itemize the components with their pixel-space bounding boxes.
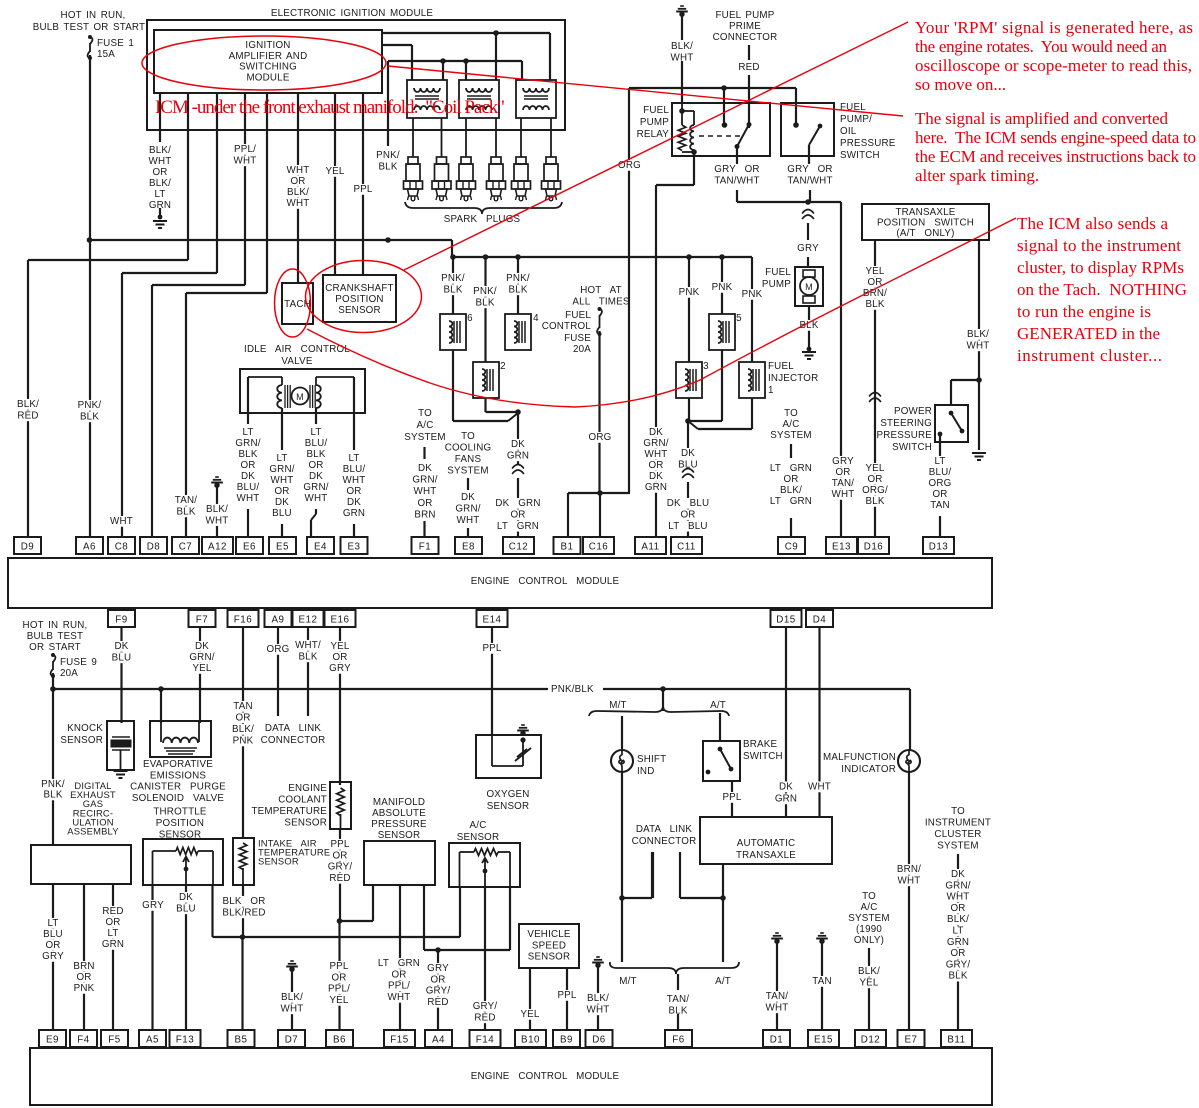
svg-text:TAN: TAN	[233, 701, 252, 712]
svg-text:SENSOR: SENSOR	[258, 856, 299, 867]
svg-text:PNK/: PNK/	[506, 273, 530, 284]
svg-text:The signal is amplified and co: The signal is amplified and converted	[915, 109, 1169, 128]
svg-text:PNK/: PNK/	[41, 779, 65, 790]
svg-text:LT: LT	[154, 189, 165, 200]
svg-text:CONNECTOR: CONNECTOR	[632, 836, 697, 847]
svg-text:PPL: PPL	[482, 643, 501, 654]
svg-text:WHT: WHT	[206, 515, 229, 526]
svg-text:BRAKE: BRAKE	[743, 739, 777, 750]
svg-text:BLK/: BLK/	[587, 993, 609, 1004]
svg-text:PNK: PNK	[742, 289, 763, 300]
svg-text:CONTROL: CONTROL	[542, 321, 592, 332]
svg-text:BLK/: BLK/	[281, 992, 303, 1003]
svg-text:GRN: GRN	[645, 482, 667, 493]
svg-text:D4: D4	[813, 615, 827, 626]
svg-text:BLK: BLK	[298, 651, 317, 662]
svg-text:RED: RED	[738, 62, 759, 73]
svg-text:PNK: PNK	[74, 983, 95, 994]
svg-text:A/C: A/C	[861, 902, 878, 913]
svg-text:MALFUNCTION: MALFUNCTION	[823, 752, 896, 763]
svg-text:A11: A11	[641, 542, 659, 553]
svg-text:3: 3	[703, 361, 709, 372]
svg-text:SYSTEM: SYSTEM	[937, 841, 978, 852]
svg-text:GRY/: GRY/	[328, 862, 353, 873]
svg-text:E5: E5	[276, 542, 289, 553]
svg-text:BULB TEST: BULB TEST	[27, 631, 83, 642]
svg-text:DK BLU: DK BLU	[667, 498, 710, 509]
svg-text:COOLANT: COOLANT	[278, 795, 327, 806]
svg-text:OR: OR	[680, 509, 695, 520]
svg-text:E14: E14	[483, 615, 502, 626]
svg-text:OIL: OIL	[840, 126, 857, 137]
svg-text:D6: D6	[592, 1035, 606, 1046]
svg-text:OR: OR	[240, 460, 255, 471]
svg-text:D12: D12	[861, 1035, 880, 1046]
svg-text:B1: B1	[561, 542, 574, 553]
svg-text:YEL: YEL	[329, 995, 348, 1006]
svg-text:GRY: GRY	[329, 663, 351, 674]
svg-text:ASSEMBLY: ASSEMBLY	[67, 826, 119, 837]
svg-text:BLK: BLK	[865, 299, 884, 310]
svg-text:PRESSURE: PRESSURE	[371, 819, 427, 830]
svg-text:here. The ICM sends engine-sp: here. The ICM sends engine-speed data to	[915, 128, 1196, 147]
svg-text:A12: A12	[208, 542, 227, 553]
svg-text:TAN/WHT: TAN/WHT	[787, 175, 832, 186]
svg-text:OR: OR	[105, 917, 120, 928]
svg-text:PPL: PPL	[722, 792, 741, 803]
svg-text:SWITCH: SWITCH	[892, 442, 932, 453]
svg-text:E9: E9	[46, 1035, 59, 1046]
svg-text:BLK: BLK	[948, 971, 967, 982]
svg-text:C7: C7	[179, 542, 193, 553]
svg-text:A4: A4	[432, 1035, 445, 1046]
svg-text:PNK: PNK	[712, 282, 733, 293]
svg-text:BLK OR: BLK OR	[222, 896, 265, 907]
svg-text:BLK/: BLK/	[780, 485, 802, 496]
svg-text:PUMP/: PUMP/	[840, 114, 872, 125]
svg-text:M: M	[296, 392, 304, 402]
svg-text:BLK: BLK	[176, 506, 195, 517]
svg-text:TO: TO	[862, 891, 876, 902]
svg-text:GRN/: GRN/	[303, 482, 328, 493]
svg-text:SYSTEM: SYSTEM	[770, 430, 811, 441]
svg-text:C11: C11	[677, 542, 696, 553]
svg-text:TAN/WHT: TAN/WHT	[714, 175, 759, 186]
svg-text:LT: LT	[310, 427, 321, 438]
svg-text:F4: F4	[77, 1035, 89, 1046]
svg-text:HOT IN RUN,: HOT IN RUN,	[61, 10, 126, 21]
svg-text:FUSE 9: FUSE 9	[60, 657, 97, 668]
svg-text:TO: TO	[784, 408, 798, 419]
svg-text:PNK/: PNK/	[441, 273, 465, 284]
svg-text:D15: D15	[776, 615, 796, 626]
svg-text:TAN/: TAN/	[832, 478, 854, 489]
svg-text:ELECTRONIC IGNITION MODULE: ELECTRONIC IGNITION MODULE	[271, 8, 434, 19]
svg-text:E7: E7	[905, 1035, 918, 1046]
svg-text:FUEL: FUEL	[643, 105, 669, 116]
svg-text:WHT: WHT	[766, 1002, 789, 1013]
svg-text:F14: F14	[476, 1035, 494, 1046]
svg-text:BLK: BLK	[443, 284, 462, 295]
svg-text:instrument cluster...: instrument cluster...	[1017, 346, 1162, 365]
svg-text:D16: D16	[864, 542, 884, 553]
svg-text:GRN: GRN	[343, 508, 365, 519]
svg-text:OR: OR	[391, 969, 406, 980]
svg-text:WHT: WHT	[281, 1003, 304, 1014]
svg-text:Your 'RPM' signal is generated: Your 'RPM' signal is generated here, as	[915, 18, 1193, 37]
svg-text:SYSTEM: SYSTEM	[848, 913, 889, 924]
svg-text:ICM -under the front exhaust m: ICM -under the front exhaust manifold: "…	[155, 97, 505, 118]
svg-text:IGNITION: IGNITION	[245, 40, 290, 51]
svg-text:WHT: WHT	[287, 198, 310, 209]
svg-text:PUMP: PUMP	[640, 117, 669, 128]
svg-text:YEL: YEL	[859, 977, 878, 988]
svg-text:ALL TIMES: ALL TIMES	[572, 296, 630, 307]
svg-text:AMPLIFIER AND: AMPLIFIER AND	[229, 51, 308, 62]
svg-text:INSTRUMENT: INSTRUMENT	[925, 818, 991, 829]
svg-text:POSITION SWITCH: POSITION SWITCH	[877, 217, 974, 228]
svg-text:OR: OR	[152, 167, 167, 178]
svg-text:BLK/: BLK/	[206, 504, 228, 515]
svg-text:BLK: BLK	[238, 449, 257, 460]
svg-text:A6: A6	[83, 542, 96, 553]
svg-text:BLU: BLU	[112, 652, 132, 663]
svg-text:TAN/: TAN/	[667, 994, 689, 1005]
svg-text:TEMPERATURE: TEMPERATURE	[252, 806, 328, 817]
svg-text:DK: DK	[114, 641, 128, 652]
svg-text:STEERING: STEERING	[880, 418, 932, 429]
svg-text:DK: DK	[309, 471, 323, 482]
svg-text:OR: OR	[332, 652, 347, 663]
svg-text:BLK/: BLK/	[287, 187, 309, 198]
svg-text:ORG: ORG	[618, 160, 641, 171]
svg-text:C8: C8	[115, 542, 129, 553]
svg-text:20A: 20A	[573, 344, 591, 355]
svg-text:M: M	[805, 282, 813, 292]
svg-text:AUTOMATIC: AUTOMATIC	[737, 838, 796, 849]
svg-text:GRY: GRY	[832, 456, 854, 467]
svg-text:4: 4	[533, 313, 539, 324]
svg-text:TO: TO	[461, 431, 475, 442]
svg-text:LT: LT	[276, 453, 287, 464]
svg-text:WHT/: WHT/	[295, 640, 321, 651]
svg-text:PNK/: PNK/	[376, 150, 400, 161]
svg-text:PPL/: PPL/	[234, 144, 256, 155]
svg-text:SWITCH: SWITCH	[840, 150, 880, 161]
svg-text:GRY: GRY	[42, 951, 64, 962]
svg-text:PPL/: PPL/	[328, 984, 350, 995]
svg-text:A/T: A/T	[715, 976, 731, 987]
svg-text:ENGINE CONTROL MODULE: ENGINE CONTROL MODULE	[471, 1071, 620, 1082]
svg-text:KNOCK: KNOCK	[67, 723, 103, 734]
svg-text:WHT: WHT	[237, 493, 260, 504]
svg-text:BLU/: BLU/	[237, 482, 260, 493]
svg-text:BLU/: BLU/	[929, 467, 952, 478]
svg-text:BLK: BLK	[378, 161, 397, 172]
svg-text:FUEL: FUEL	[768, 361, 794, 372]
svg-text:A9: A9	[272, 615, 285, 626]
svg-text:DK: DK	[511, 439, 525, 450]
svg-text:LT: LT	[107, 928, 118, 939]
svg-text:The ICM also sends a: The ICM also sends a	[1017, 214, 1168, 233]
svg-text:OR: OR	[308, 460, 323, 471]
svg-text:LT: LT	[952, 926, 963, 937]
svg-text:WHT: WHT	[645, 449, 668, 460]
svg-text:6: 6	[467, 313, 473, 324]
svg-text:PPL/: PPL/	[388, 981, 410, 992]
svg-text:WHT: WHT	[287, 165, 310, 176]
svg-text:SENSOR: SENSOR	[487, 801, 530, 812]
svg-text:WHT: WHT	[457, 515, 480, 526]
svg-text:TRANSAXLE: TRANSAXLE	[895, 207, 955, 218]
svg-text:GRY: GRY	[142, 900, 164, 911]
svg-text:TAN: TAN	[812, 976, 831, 987]
svg-text:A5: A5	[146, 1035, 159, 1046]
svg-text:BLK/: BLK/	[671, 41, 693, 52]
svg-text:A/C: A/C	[417, 420, 434, 431]
svg-text:ORG: ORG	[589, 432, 612, 443]
svg-text:PRIME: PRIME	[729, 21, 761, 32]
svg-text:A/T: A/T	[710, 700, 726, 711]
svg-text:WHT: WHT	[388, 992, 411, 1003]
svg-text:BLU: BLU	[176, 903, 196, 914]
svg-text:GRN/: GRN/	[269, 464, 294, 475]
svg-text:GRN: GRN	[947, 937, 969, 948]
svg-text:FANS: FANS	[455, 454, 482, 465]
svg-text:OR: OR	[648, 460, 663, 471]
svg-text:D8: D8	[147, 542, 161, 553]
svg-text:SENSOR: SENSOR	[284, 818, 327, 829]
svg-text:D7: D7	[285, 1035, 299, 1046]
svg-text:GRN: GRN	[102, 939, 124, 950]
svg-text:SENSOR: SENSOR	[528, 952, 571, 963]
svg-text:DATA LINK: DATA LINK	[265, 723, 322, 734]
svg-text:WHT: WHT	[587, 1004, 610, 1015]
svg-text:OR: OR	[783, 474, 798, 485]
svg-text:GRN/: GRN/	[235, 438, 260, 449]
svg-text:BLK/: BLK/	[149, 145, 171, 156]
svg-text:GRY: GRY	[427, 963, 449, 974]
svg-text:ENGINE CONTROL MODULE: ENGINE CONTROL MODULE	[471, 576, 620, 587]
svg-text:SOLENOID VALVE: SOLENOID VALVE	[132, 793, 224, 804]
svg-text:VALVE: VALVE	[281, 356, 312, 367]
svg-text:POSITION: POSITION	[156, 818, 204, 829]
svg-text:BLK/: BLK/	[17, 399, 39, 410]
svg-text:1: 1	[768, 385, 774, 396]
svg-text:BLK/: BLK/	[232, 724, 254, 735]
svg-text:ORG: ORG	[929, 478, 952, 489]
svg-text:F9: F9	[115, 615, 127, 626]
svg-text:OR: OR	[332, 850, 347, 861]
svg-text:MODULE: MODULE	[246, 72, 289, 83]
svg-text:CLUSTER: CLUSTER	[934, 829, 981, 840]
svg-text:MANIFOLD: MANIFOLD	[373, 797, 425, 808]
svg-text:D9: D9	[21, 542, 35, 553]
svg-text:POSITION: POSITION	[335, 294, 383, 305]
svg-text:PNK/: PNK/	[78, 400, 102, 411]
svg-text:PNK: PNK	[679, 287, 700, 298]
svg-text:FUEL: FUEL	[565, 310, 591, 321]
svg-text:OR: OR	[430, 974, 445, 985]
svg-text:PPL: PPL	[557, 990, 576, 1001]
svg-text:SENSOR: SENSOR	[378, 830, 421, 841]
svg-text:F5: F5	[108, 1035, 120, 1046]
svg-text:BLU/: BLU/	[305, 438, 328, 449]
svg-text:LT BLU: LT BLU	[668, 521, 707, 532]
svg-text:the engine rotates. You would: the engine rotates. You would need an	[915, 37, 1168, 56]
svg-text:PUMP: PUMP	[762, 279, 791, 290]
svg-text:PRESSURE: PRESSURE	[840, 138, 896, 149]
svg-text:DK: DK	[681, 448, 695, 459]
svg-text:OR: OR	[950, 903, 965, 914]
svg-text:C12: C12	[509, 542, 528, 553]
svg-text:to run the engine is: to run the engine is	[1017, 302, 1151, 321]
svg-text:RED: RED	[102, 906, 123, 917]
svg-text:BLU: BLU	[272, 508, 292, 519]
svg-text:the ECM and receives instructi: the ECM and receives instructions back t…	[915, 147, 1196, 166]
svg-text:INDICATOR: INDICATOR	[841, 764, 896, 775]
svg-text:GRY: GRY	[797, 243, 819, 254]
svg-text:DK: DK	[779, 782, 793, 793]
svg-text:so move on...: so move on...	[915, 75, 1006, 94]
svg-text:GRN/: GRN/	[455, 504, 480, 515]
svg-text:GRY/: GRY/	[473, 1001, 498, 1012]
svg-text:D13: D13	[929, 542, 949, 553]
svg-text:PPL: PPL	[353, 184, 372, 195]
svg-text:BRN: BRN	[414, 509, 435, 520]
svg-text:BLK: BLK	[80, 411, 99, 422]
svg-text:TAN: TAN	[930, 500, 949, 511]
svg-text:E15: E15	[814, 1035, 833, 1046]
svg-text:ONLY): ONLY)	[854, 935, 884, 946]
svg-text:GRN/: GRN/	[643, 438, 668, 449]
svg-text:WHT: WHT	[898, 875, 921, 886]
svg-text:BLK/: BLK/	[947, 914, 969, 925]
svg-text:VEHICLE: VEHICLE	[527, 929, 571, 940]
svg-text:HOT IN RUN,: HOT IN RUN,	[23, 620, 88, 631]
svg-text:ABSOLUTE: ABSOLUTE	[372, 808, 426, 819]
svg-text:YEL: YEL	[325, 166, 344, 177]
svg-text:OR: OR	[290, 176, 305, 187]
svg-text:alter spark timing.: alter spark timing.	[915, 166, 1039, 185]
svg-text:C9: C9	[785, 542, 799, 553]
svg-text:signal to the instrument: signal to the instrument	[1017, 236, 1181, 255]
svg-text:GRN/: GRN/	[945, 880, 970, 891]
svg-text:OR: OR	[45, 940, 60, 951]
svg-text:(1990: (1990	[856, 924, 882, 935]
svg-text:B5: B5	[235, 1035, 248, 1046]
svg-text:F13: F13	[176, 1035, 194, 1046]
svg-text:LT GRN: LT GRN	[770, 463, 812, 474]
svg-text:GRY OR: GRY OR	[714, 164, 759, 175]
svg-text:DK: DK	[241, 471, 255, 482]
svg-text:RED: RED	[17, 410, 38, 421]
svg-text:POWER: POWER	[894, 406, 932, 417]
svg-text:EVAPORATIVE: EVAPORATIVE	[143, 759, 213, 770]
svg-text:BLU/: BLU/	[343, 464, 366, 475]
svg-text:RED: RED	[474, 1012, 495, 1023]
svg-text:OR: OR	[346, 486, 361, 497]
svg-text:A/C: A/C	[783, 419, 800, 430]
svg-text:GRY/: GRY/	[426, 986, 451, 997]
svg-text:E16: E16	[331, 615, 350, 626]
svg-text:oscilloscope or scope-meter to: oscilloscope or scope-meter to read this…	[915, 56, 1192, 75]
svg-text:FUEL: FUEL	[765, 267, 791, 278]
svg-text:cluster, to display RPMs: cluster, to display RPMs	[1017, 258, 1184, 277]
svg-text:LT: LT	[934, 456, 945, 467]
svg-text:WHT: WHT	[967, 340, 990, 351]
svg-text:OR: OR	[417, 498, 432, 509]
svg-text:WHT: WHT	[305, 493, 328, 504]
svg-text:TRANSAXLE: TRANSAXLE	[736, 850, 796, 861]
svg-text:PRESSURE: PRESSURE	[877, 430, 933, 441]
svg-text:ENGINE: ENGINE	[288, 783, 327, 794]
svg-text:SWITCH: SWITCH	[743, 751, 783, 762]
svg-text:PPL: PPL	[330, 839, 349, 850]
svg-text:RELAY: RELAY	[637, 129, 670, 140]
svg-text:LT GRN: LT GRN	[770, 496, 812, 507]
svg-text:OR: OR	[76, 972, 91, 983]
svg-text:OR: OR	[867, 474, 882, 485]
svg-text:15A: 15A	[97, 49, 115, 60]
svg-text:BLK: BLK	[475, 297, 494, 308]
svg-text:WHT: WHT	[234, 155, 257, 166]
svg-text:F6: F6	[672, 1035, 684, 1046]
svg-text:E13: E13	[832, 542, 851, 553]
svg-text:IND: IND	[637, 766, 654, 777]
svg-text:WHT: WHT	[110, 516, 133, 527]
svg-text:OXYGEN: OXYGEN	[486, 789, 529, 800]
svg-text:DK: DK	[649, 471, 663, 482]
svg-text:DK: DK	[649, 427, 663, 438]
svg-text:OR: OR	[950, 948, 965, 959]
svg-text:GENERATED in the: GENERATED in the	[1017, 324, 1160, 343]
svg-text:YEL: YEL	[520, 1009, 539, 1020]
svg-text:WHT: WHT	[808, 782, 831, 793]
svg-text:CONNECTOR: CONNECTOR	[713, 32, 778, 43]
svg-text:SYSTEM: SYSTEM	[447, 466, 488, 477]
svg-text:TO: TO	[418, 408, 432, 419]
svg-text:WHT: WHT	[149, 156, 172, 167]
svg-text:DK GRN: DK GRN	[495, 498, 540, 509]
svg-text:PNK/: PNK/	[473, 286, 497, 297]
svg-text:DK: DK	[275, 497, 289, 508]
svg-text:BULB TEST OR START: BULB TEST OR START	[33, 22, 145, 33]
svg-text:DK: DK	[951, 869, 965, 880]
svg-text:OR: OR	[932, 489, 947, 500]
svg-text:THROTTLE: THROTTLE	[153, 807, 207, 818]
svg-text:on the Tach. NOTHING: on the Tach. NOTHING	[1017, 280, 1187, 299]
svg-text:SPARK PLUGS: SPARK PLUGS	[444, 214, 521, 225]
svg-text:GRN: GRN	[507, 450, 529, 461]
svg-text:DK: DK	[418, 463, 432, 474]
svg-text:M/T: M/T	[609, 700, 626, 711]
svg-text:B6: B6	[333, 1035, 346, 1046]
svg-text:LT GRN: LT GRN	[378, 958, 420, 969]
svg-text:BLK/RED: BLK/RED	[222, 907, 265, 918]
svg-text:FUSE 1: FUSE 1	[97, 38, 134, 49]
svg-text:B9: B9	[560, 1035, 573, 1046]
svg-text:INJECTOR: INJECTOR	[768, 373, 818, 384]
svg-text:RED: RED	[427, 997, 448, 1008]
svg-text:CANISTER PURGE: CANISTER PURGE	[130, 782, 226, 793]
svg-text:DK: DK	[461, 492, 475, 503]
svg-text:BRN: BRN	[73, 961, 94, 972]
svg-text:DK: DK	[195, 641, 209, 652]
svg-text:OR: OR	[274, 486, 289, 497]
svg-text:F7: F7	[196, 615, 208, 626]
svg-text:BLK/: BLK/	[967, 329, 989, 340]
